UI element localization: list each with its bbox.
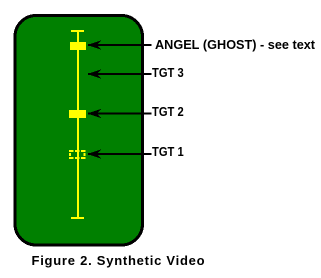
wire vertical sweep line bbox=[77, 30, 79, 219]
wire TGT 1 arrowhead bbox=[87, 150, 101, 159]
node TGT 2 marker bbox=[69, 110, 86, 118]
node top range mark bbox=[71, 30, 84, 32]
caption bbox=[32, 254, 206, 267]
wire TGT 1 callout line bbox=[88, 153, 152, 155]
node bottom range mark bbox=[71, 217, 84, 219]
wire TGT 2 arrowhead bbox=[87, 109, 101, 118]
wire TGT 3 arrowhead bbox=[87, 70, 101, 79]
wire TGT 2 callout line bbox=[88, 113, 152, 115]
screen body bbox=[15, 16, 143, 246]
wire TGT 3 callout line bbox=[88, 73, 152, 75]
node label TGT 3 bbox=[152, 66, 184, 79]
node label TGT 2 bbox=[152, 105, 184, 118]
node label TGT 1 bbox=[152, 145, 184, 158]
wire ANGEL callout line bbox=[88, 44, 152, 46]
node ANGEL (GHOST) marker bbox=[70, 42, 86, 50]
wire ANGEL arrowhead bbox=[87, 41, 101, 50]
node label ANGEL (GHOST) bbox=[155, 38, 315, 51]
node TGT 1 marker (dashed box) bbox=[69, 150, 86, 159]
